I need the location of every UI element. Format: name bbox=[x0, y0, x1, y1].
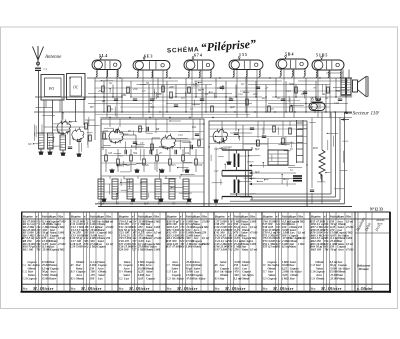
svg-text:25.000: 25.000 bbox=[201, 243, 210, 246]
coil windings under V5 bbox=[280, 69, 305, 78]
svg-text:R37 47.000: R37 47.000 bbox=[166, 245, 181, 249]
svg-text:Repère: Repère bbox=[23, 215, 33, 219]
svg-text:8µF: 8µF bbox=[255, 148, 260, 151]
svg-text:3.000: 3.000 bbox=[345, 237, 353, 240]
svg-text:1 MΩ: 1 MΩ bbox=[202, 226, 208, 229]
redacteur note bbox=[356, 264, 372, 291]
ground in box B bbox=[213, 161, 231, 203]
resistor R18 bbox=[289, 128, 292, 134]
svg-text:Vatea: Vatea bbox=[242, 247, 249, 251]
svg-text:R21: R21 bbox=[70, 277, 76, 280]
wire bus D2 bbox=[240, 90, 340, 92]
resistor row in box A bbox=[105, 149, 198, 172]
svg-text:47.000: 47.000 bbox=[57, 243, 66, 246]
resistor R2 bbox=[89, 135, 92, 141]
coil windings under V1 bbox=[96, 70, 118, 79]
component value labels bbox=[89, 81, 340, 111]
resistor group box A upper bbox=[103, 126, 201, 150]
wire bus C bbox=[140, 84, 330, 86]
svg-text:M. Olivier: M. Olivier bbox=[272, 286, 294, 291]
padder capacitor C3 bbox=[77, 140, 81, 152]
svg-text:Vatea: Vatea bbox=[289, 245, 296, 249]
svg-text:50 pf: 50 pf bbox=[330, 247, 337, 251]
svg-text:Obs: Obs bbox=[298, 215, 304, 219]
svg-text:Rep: Rep bbox=[118, 286, 124, 290]
junction dots on buses bbox=[69, 77, 346, 112]
wire segments zone 5 bbox=[309, 122, 348, 189]
svg-text:500: 500 bbox=[289, 82, 294, 86]
svg-text:50k: 50k bbox=[150, 105, 155, 109]
svg-text:Secteur 110ᵗ: Secteur 110ᵗ bbox=[353, 111, 381, 117]
coil box OC bbox=[67, 74, 86, 100]
svg-text:C10: C10 bbox=[178, 134, 183, 137]
svg-text:5 1 B 5: 5 1 B 5 bbox=[316, 54, 327, 58]
svg-text:Rep: Rep bbox=[310, 286, 316, 290]
svg-text:0,1 mf: 0,1 mf bbox=[106, 243, 114, 246]
svg-text:C26: C26 bbox=[311, 277, 316, 280]
svg-text:R21: R21 bbox=[321, 92, 327, 96]
svg-text:R11 100: R11 100 bbox=[23, 247, 34, 251]
svg-text:0,5: 0,5 bbox=[172, 164, 176, 167]
svg-text:C19 5.000: C19 5.000 bbox=[70, 245, 83, 249]
svg-text:Sator: Sator bbox=[50, 276, 57, 280]
svg-text:1 3 5: 1 3 5 bbox=[239, 53, 247, 57]
wire bottom rail 2 bbox=[95, 203, 345, 205]
terminal strip ladder bbox=[297, 120, 304, 163]
svg-text:Obs: Obs bbox=[154, 215, 160, 219]
coil windings under V2 bbox=[137, 70, 167, 78]
wire speaker links bbox=[326, 70, 349, 79]
svg-text:0,5: 0,5 bbox=[270, 107, 274, 111]
svg-text:5 L 4: 5 L 4 bbox=[99, 54, 107, 58]
svg-text:HT: HT bbox=[89, 105, 94, 109]
wire bus E bbox=[35, 96, 352, 98]
wire vertical interconnects bbox=[95, 78, 346, 112]
svg-text:y. Olivier: y. Olivier bbox=[356, 286, 372, 291]
svg-text:Rep: Rep bbox=[166, 286, 172, 290]
wire right loop 2 bbox=[240, 112, 336, 197]
svg-text:1M: 1M bbox=[193, 82, 197, 86]
grounds and caps in box A bbox=[109, 150, 189, 173]
svg-text:Cogeco: Cogeco bbox=[27, 276, 37, 280]
svg-text:Obs: Obs bbox=[58, 215, 64, 219]
ground for L2 bbox=[47, 149, 52, 155]
triode V0b bbox=[72, 127, 84, 141]
wire bus C2 bbox=[95, 87, 260, 89]
svg-text:1 MΩ: 1 MΩ bbox=[298, 243, 304, 246]
wire box B mesh bbox=[209, 121, 307, 207]
svg-text:2 MΩ: 2 MΩ bbox=[57, 226, 64, 229]
svg-text:C12: C12 bbox=[238, 92, 243, 96]
svg-text:47.000: 47.000 bbox=[153, 237, 162, 240]
svg-text:0,1 mf: 0,1 mf bbox=[202, 237, 210, 240]
svg-text:47k: 47k bbox=[98, 89, 103, 93]
svg-text:0,1: 0,1 bbox=[110, 107, 114, 111]
svg-text:Repère: Repère bbox=[71, 215, 81, 219]
wire grid leads V2a bbox=[103, 121, 136, 150]
IF transformer coils row bbox=[98, 179, 189, 199]
svg-text:M. Olivier: M. Olivier bbox=[128, 286, 150, 291]
svg-text:0,1: 0,1 bbox=[241, 82, 245, 86]
wire bus B bbox=[95, 80, 348, 82]
svg-text:Type: Type bbox=[193, 215, 200, 219]
svg-text:6 7 4: 6 7 4 bbox=[194, 54, 202, 58]
svg-text:0,5 mf: 0,5 mf bbox=[250, 248, 258, 251]
svg-text:C18: C18 bbox=[311, 271, 316, 274]
svg-text:Type: Type bbox=[337, 215, 344, 219]
svg-text:Rep: Rep bbox=[214, 286, 220, 290]
svg-text:2 MΩ: 2 MΩ bbox=[153, 220, 160, 223]
wire bus H bbox=[100, 117, 352, 119]
svg-text:C21: C21 bbox=[214, 170, 219, 173]
grounds box A row2 bbox=[101, 198, 191, 202]
filter capacitor C21 bbox=[222, 173, 252, 200]
wire secteur arrows bbox=[341, 112, 352, 121]
svg-text:3.000: 3.000 bbox=[153, 248, 161, 251]
ground for C3 bbox=[76, 153, 81, 157]
svg-text:M. Olivier: M. Olivier bbox=[80, 286, 102, 291]
svg-text:tions: tions bbox=[377, 223, 382, 226]
wire bus D bbox=[88, 93, 232, 95]
svg-text:Lux: Lux bbox=[97, 276, 103, 280]
svg-text:0,1 mf: 0,1 mf bbox=[298, 232, 306, 235]
svg-text:100: 100 bbox=[198, 164, 203, 167]
svg-text:Repère: Repère bbox=[311, 215, 321, 219]
svg-text:4M7: 4M7 bbox=[169, 85, 175, 89]
wire left stage links bbox=[37, 120, 96, 148]
wire right loop 1 bbox=[230, 112, 331, 194]
svg-text:0,5: 0,5 bbox=[181, 96, 185, 100]
svg-text:8µF: 8µF bbox=[230, 105, 235, 109]
svg-text:1 MΩ: 1 MΩ bbox=[298, 220, 304, 223]
rectifier transformer T2 bbox=[268, 150, 288, 165]
triode V3 bbox=[213, 127, 228, 144]
resistor R1 bbox=[85, 123, 88, 129]
svg-text:Obs: Obs bbox=[250, 215, 256, 219]
triode V2a bbox=[109, 127, 124, 144]
svg-text:C23: C23 bbox=[167, 277, 172, 280]
svg-text:Obs: Obs bbox=[202, 215, 208, 219]
wire can risers bbox=[107, 70, 330, 118]
junction dots mid bbox=[103, 96, 346, 165]
svg-text:0,5 mf: 0,5 mf bbox=[154, 232, 162, 235]
svg-text:Type: Type bbox=[49, 215, 56, 219]
svg-text:Repère: Repère bbox=[263, 215, 273, 219]
svg-text:Type: Type bbox=[241, 215, 248, 219]
svg-text:Type: Type bbox=[145, 215, 152, 219]
table headers bbox=[23, 215, 385, 233]
stage box B outline bbox=[209, 121, 307, 207]
svg-text:0,1: 0,1 bbox=[109, 81, 113, 85]
svg-text:Rep: Rep bbox=[22, 286, 28, 290]
svg-text:Cogeco: Cogeco bbox=[146, 276, 155, 280]
svg-text:R65 100: R65 100 bbox=[311, 247, 322, 251]
core symbol bbox=[293, 176, 302, 181]
capacitor C18 bbox=[222, 138, 224, 142]
capacitor C19 bbox=[234, 133, 238, 135]
output transformer T3 bbox=[341, 78, 351, 95]
wire right loop 3 bbox=[250, 118, 340, 201]
svg-text:Vatea: Vatea bbox=[338, 276, 345, 280]
wire segments zone 4 bbox=[33, 112, 100, 151]
svg-text:3.000: 3.000 bbox=[185, 245, 193, 249]
svg-text:T29 300: T29 300 bbox=[118, 247, 129, 251]
svg-text:Lux: Lux bbox=[123, 276, 130, 280]
svg-text:250: 250 bbox=[233, 247, 239, 251]
svg-text:Repère: Repère bbox=[119, 215, 129, 219]
coil L1 bbox=[39, 133, 45, 149]
tube can V6 (51B5) bbox=[312, 57, 344, 71]
svg-text:M. Olivier: M. Olivier bbox=[320, 286, 342, 291]
wire bus F2 bbox=[120, 106, 330, 108]
wire right loop 4 bbox=[344, 112, 346, 204]
svg-text:C10: C10 bbox=[311, 264, 316, 267]
svg-text:6 E 3: 6 E 3 bbox=[144, 55, 152, 59]
svg-text:250: 250 bbox=[297, 226, 303, 229]
svg-text:25.000: 25.000 bbox=[297, 237, 306, 240]
wire segments zone 2 bbox=[103, 120, 194, 204]
labels under IF coils bbox=[100, 203, 189, 206]
svg-text:0,5 mf: 0,5 mf bbox=[58, 237, 66, 240]
svg-text:Arco: Arco bbox=[337, 247, 344, 251]
speaker LS bbox=[353, 77, 369, 97]
labels in box B bbox=[214, 148, 294, 174]
svg-text:Repère: Repère bbox=[215, 215, 225, 219]
svg-text:T17: T17 bbox=[263, 271, 268, 274]
wire box A inner mesh bbox=[101, 119, 204, 192]
wire segments zone 1 bbox=[101, 80, 353, 116]
svg-text:C18: C18 bbox=[334, 101, 339, 105]
triode V0 (converter) bbox=[57, 119, 71, 135]
svg-text:Ohmic: Ohmic bbox=[76, 276, 85, 280]
svg-text:C47 3.000: C47 3.000 bbox=[215, 247, 228, 251]
wire bus G2 bbox=[95, 114, 250, 116]
svg-text:3.000: 3.000 bbox=[249, 243, 257, 246]
svg-text:T25: T25 bbox=[263, 277, 268, 280]
svg-text:Henaze: Henaze bbox=[358, 267, 370, 271]
svg-text:2 MΩ: 2 MΩ bbox=[57, 248, 64, 251]
svg-text:Antenne: Antenne bbox=[44, 55, 62, 60]
svg-text:Star: Star bbox=[290, 276, 296, 280]
svg-text:250: 250 bbox=[201, 232, 207, 235]
svg-text:Star: Star bbox=[219, 276, 225, 280]
svg-text:Sic-Safco: Sic-Safco bbox=[194, 276, 206, 280]
svg-text:T55 0,5 mf: T55 0,5 mf bbox=[262, 245, 276, 249]
svg-text:25.000: 25.000 bbox=[201, 220, 210, 223]
triode V2b bbox=[161, 133, 176, 150]
svg-text:35 W 4: 35 W 4 bbox=[310, 98, 321, 102]
svg-text:Type: Type bbox=[289, 215, 296, 219]
svg-text:T22: T22 bbox=[119, 277, 124, 280]
svg-text:250: 250 bbox=[133, 87, 138, 91]
svg-text:8µF: 8µF bbox=[144, 203, 149, 206]
wire right risers bbox=[312, 112, 322, 204]
wire bottom rail bbox=[98, 206, 352, 208]
svg-text:Cogeco: Cogeco bbox=[97, 245, 106, 249]
table entries bbox=[22, 219, 354, 290]
antenna series capacitor bbox=[35, 68, 41, 134]
svg-text:0,5 mf: 0,5 mf bbox=[346, 220, 354, 223]
svg-text:Ohmic: Ohmic bbox=[145, 247, 154, 251]
svg-text:R8: R8 bbox=[214, 264, 219, 267]
wire segments zone 3 bbox=[211, 127, 307, 194]
tube can V1 (5L4) bbox=[92, 57, 121, 70]
svg-text:R5: R5 bbox=[101, 99, 106, 103]
wire bottom rail 3 bbox=[230, 200, 340, 202]
antenna bbox=[33, 46, 44, 67]
svg-text:47.000: 47.000 bbox=[249, 232, 258, 235]
svg-text:R9: R9 bbox=[197, 88, 202, 92]
wire bus A bbox=[87, 77, 352, 79]
stage box A outline bbox=[101, 119, 204, 207]
wire antenna to coil boxes bbox=[46, 100, 76, 119]
svg-text:C15: C15 bbox=[286, 89, 291, 93]
labels in box A bbox=[104, 126, 203, 167]
svg-text:0,5 mf: 0,5 mf bbox=[346, 243, 354, 246]
svg-text:R13: R13 bbox=[70, 271, 76, 274]
small resistors and capacitors along buses bbox=[102, 86, 342, 112]
svg-text:M. Olivier: M. Olivier bbox=[224, 286, 246, 291]
resistor R19 bbox=[282, 138, 285, 144]
wire box A links bbox=[98, 124, 204, 202]
capacitor C17 bbox=[262, 136, 266, 138]
wire box B top links bbox=[209, 125, 307, 150]
svg-text:N°12 33: N°12 33 bbox=[370, 208, 383, 212]
filter capacitor C20 bbox=[222, 147, 252, 174]
svg-text:Obs: Obs bbox=[106, 215, 112, 219]
tube can V3 (674) bbox=[184, 57, 214, 71]
svg-text:250: 250 bbox=[105, 237, 111, 240]
resistor R17 bbox=[257, 140, 260, 146]
wire grid leads V2b bbox=[152, 138, 190, 155]
svg-text:OC: OC bbox=[73, 86, 79, 90]
ground for L1 bbox=[38, 149, 43, 155]
svg-text:Cogeco: Cogeco bbox=[268, 276, 278, 280]
svg-text:100: 100 bbox=[217, 86, 222, 90]
parts table grid bbox=[21, 212, 392, 293]
svg-text:3.000: 3.000 bbox=[153, 226, 161, 229]
coil box PO bbox=[41, 75, 64, 101]
capacitor C2 bbox=[68, 147, 72, 149]
svg-text:25.000: 25.000 bbox=[105, 226, 114, 229]
svg-text:Obs: Obs bbox=[346, 215, 352, 219]
ground for L3 bbox=[60, 150, 65, 156]
coil windings under V3 bbox=[188, 70, 211, 78]
svg-text:C20: C20 bbox=[214, 148, 219, 151]
svg-text:2 MΩ: 2 MΩ bbox=[281, 276, 290, 280]
svg-text:3.000: 3.000 bbox=[249, 220, 257, 223]
svg-text:0,5 mf: 0,5 mf bbox=[250, 226, 258, 229]
wire left stage risers bbox=[36, 97, 96, 140]
wire rails in box B bbox=[246, 150, 297, 196]
svg-text:R24: R24 bbox=[214, 277, 220, 280]
svg-text:1 MΩ: 1 MΩ bbox=[106, 232, 112, 235]
tube can V5 (5B4) bbox=[276, 56, 308, 70]
svg-text:5 B 4: 5 B 4 bbox=[285, 53, 293, 57]
svg-text:R16: R16 bbox=[214, 271, 220, 274]
svg-text:Sic-Safco: Sic-Safco bbox=[172, 276, 184, 280]
svg-text:M. Olivier: M. Olivier bbox=[32, 286, 54, 291]
svg-text:0,05: 0,05 bbox=[138, 276, 144, 280]
capacitor C30 bbox=[310, 190, 314, 192]
wire bus G bbox=[34, 111, 352, 113]
svg-text:300: 300 bbox=[89, 276, 95, 280]
svg-text:C7: C7 bbox=[142, 89, 146, 93]
svg-text:M. Olivier: M. Olivier bbox=[176, 286, 198, 291]
coil windings under V6 bbox=[316, 70, 341, 78]
svg-text:PO: PO bbox=[48, 87, 54, 91]
tube can V4 (135) bbox=[229, 57, 263, 70]
svg-text:C1: C1 bbox=[44, 67, 48, 71]
capacitor C16 bbox=[250, 128, 254, 130]
resistor R16 bbox=[273, 126, 276, 132]
tube can V6 (35W4) bbox=[309, 103, 325, 111]
tube can V2 (6E3) bbox=[133, 57, 170, 70]
svg-text:R5: R5 bbox=[70, 264, 75, 267]
svg-text:R11: R11 bbox=[191, 126, 197, 129]
capacitor group box A bbox=[116, 127, 199, 149]
svg-text:10n: 10n bbox=[157, 92, 162, 96]
svg-text:C20: C20 bbox=[23, 277, 28, 280]
svg-text:47.000: 47.000 bbox=[345, 226, 354, 229]
svg-text:Rep: Rep bbox=[262, 286, 268, 290]
svg-text:Ohmic: Ohmic bbox=[193, 245, 202, 249]
coil windings under V4 bbox=[233, 70, 260, 79]
svg-text:8µF: 8µF bbox=[255, 171, 260, 174]
svg-text:Ohmic: Ohmic bbox=[316, 276, 325, 280]
coil L3 bbox=[60, 135, 66, 150]
resistor R30 zigzag bbox=[319, 150, 325, 181]
svg-text:47.000: 47.000 bbox=[345, 248, 354, 251]
svg-text:Rep: Rep bbox=[70, 286, 76, 290]
wire bus E2 bbox=[95, 100, 300, 102]
svg-text:Ohmic: Ohmic bbox=[242, 276, 251, 280]
svg-text:Type: Type bbox=[97, 215, 104, 219]
svg-text:Repère: Repère bbox=[167, 215, 177, 219]
svg-text:R8: R8 bbox=[155, 128, 160, 131]
wire bus F bbox=[88, 103, 348, 105]
svg-text:4µF: 4µF bbox=[100, 203, 105, 206]
svg-text:0,1 mf: 0,1 mf bbox=[106, 220, 114, 223]
coil L2 bbox=[48, 133, 54, 149]
svg-text:R30: R30 bbox=[312, 146, 318, 150]
